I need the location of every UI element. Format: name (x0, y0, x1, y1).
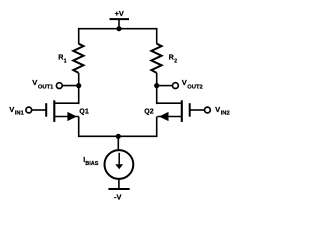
transistor Q2 (144, 100, 204, 122)
svg-text:OUT2: OUT2 (187, 85, 202, 91)
node junction VOUT1 (76, 83, 81, 88)
node tail junction (116, 134, 121, 139)
wire VOUT2 node to Q2 drain (156, 86, 158, 105)
power -V supply symbol (108, 189, 129, 202)
wire Q1 source to tail node (79, 117, 119, 137)
wire R1 bottom lead (78, 73, 80, 86)
svg-text:BIAS: BIAS (85, 161, 98, 167)
wire Q2 source to tail node (118, 117, 156, 137)
svg-text:2: 2 (174, 59, 177, 65)
terminal VOUT1 (32, 78, 78, 91)
node junction VOUT2 (154, 83, 159, 88)
transistor Q1 (33, 100, 89, 122)
wire tail node to current source (117, 136, 119, 150)
svg-text:IN1: IN1 (15, 111, 25, 117)
svg-text:Q2: Q2 (144, 107, 154, 115)
resistor R2 (151, 44, 177, 73)
terminal VIN2 (205, 105, 230, 117)
wire current source to -V (118, 180, 120, 190)
node junction top rail (116, 26, 121, 31)
svg-text:IN2: IN2 (221, 111, 230, 117)
resistor R1 (58, 44, 83, 73)
power +V supply symbol (110, 9, 130, 29)
svg-text:OUT1: OUT1 (38, 85, 54, 91)
terminal VOUT2 (157, 78, 203, 91)
wire top rail (79, 29, 157, 44)
svg-text:+V: +V (115, 9, 124, 18)
terminal VIN1 (9, 105, 32, 117)
current source IBIAS (83, 150, 133, 179)
wire VOUT1 node to Q1 drain (78, 86, 80, 105)
svg-text:-V: -V (114, 193, 122, 202)
svg-text:Q1: Q1 (79, 107, 89, 115)
svg-text:1: 1 (64, 59, 67, 65)
wire R2 bottom lead (156, 73, 158, 86)
